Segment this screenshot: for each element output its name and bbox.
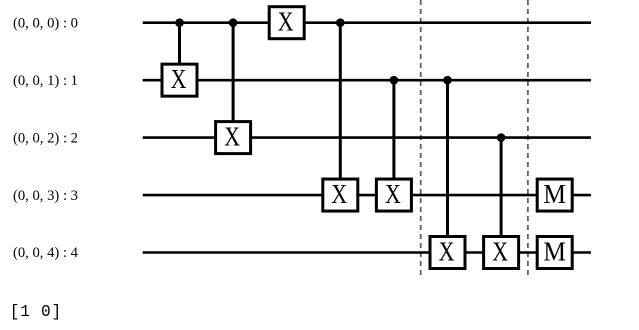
svg-text:(0, 0, 3) : 3: (0, 0, 3) : 3 <box>13 188 78 204</box>
svg-text:X: X <box>385 179 401 209</box>
svg-text:(0, 0, 2) : 2: (0, 0, 2) : 2 <box>13 130 78 146</box>
svg-text:X: X <box>171 64 187 94</box>
svg-text:X: X <box>492 236 508 266</box>
svg-text:X: X <box>331 179 347 209</box>
svg-text:(0, 0, 0) : 0: (0, 0, 0) : 0 <box>13 15 78 31</box>
svg-text:X: X <box>278 7 294 37</box>
svg-text:X: X <box>224 122 240 152</box>
svg-text:(0, 0, 1) : 1: (0, 0, 1) : 1 <box>13 73 78 89</box>
svg-text:M: M <box>543 179 566 209</box>
svg-text:X: X <box>439 236 455 266</box>
svg-text:[1 0]: [1 0] <box>10 303 62 321</box>
svg-text:M: M <box>543 236 566 266</box>
svg-text:(0, 0, 4) : 4: (0, 0, 4) : 4 <box>13 245 78 261</box>
